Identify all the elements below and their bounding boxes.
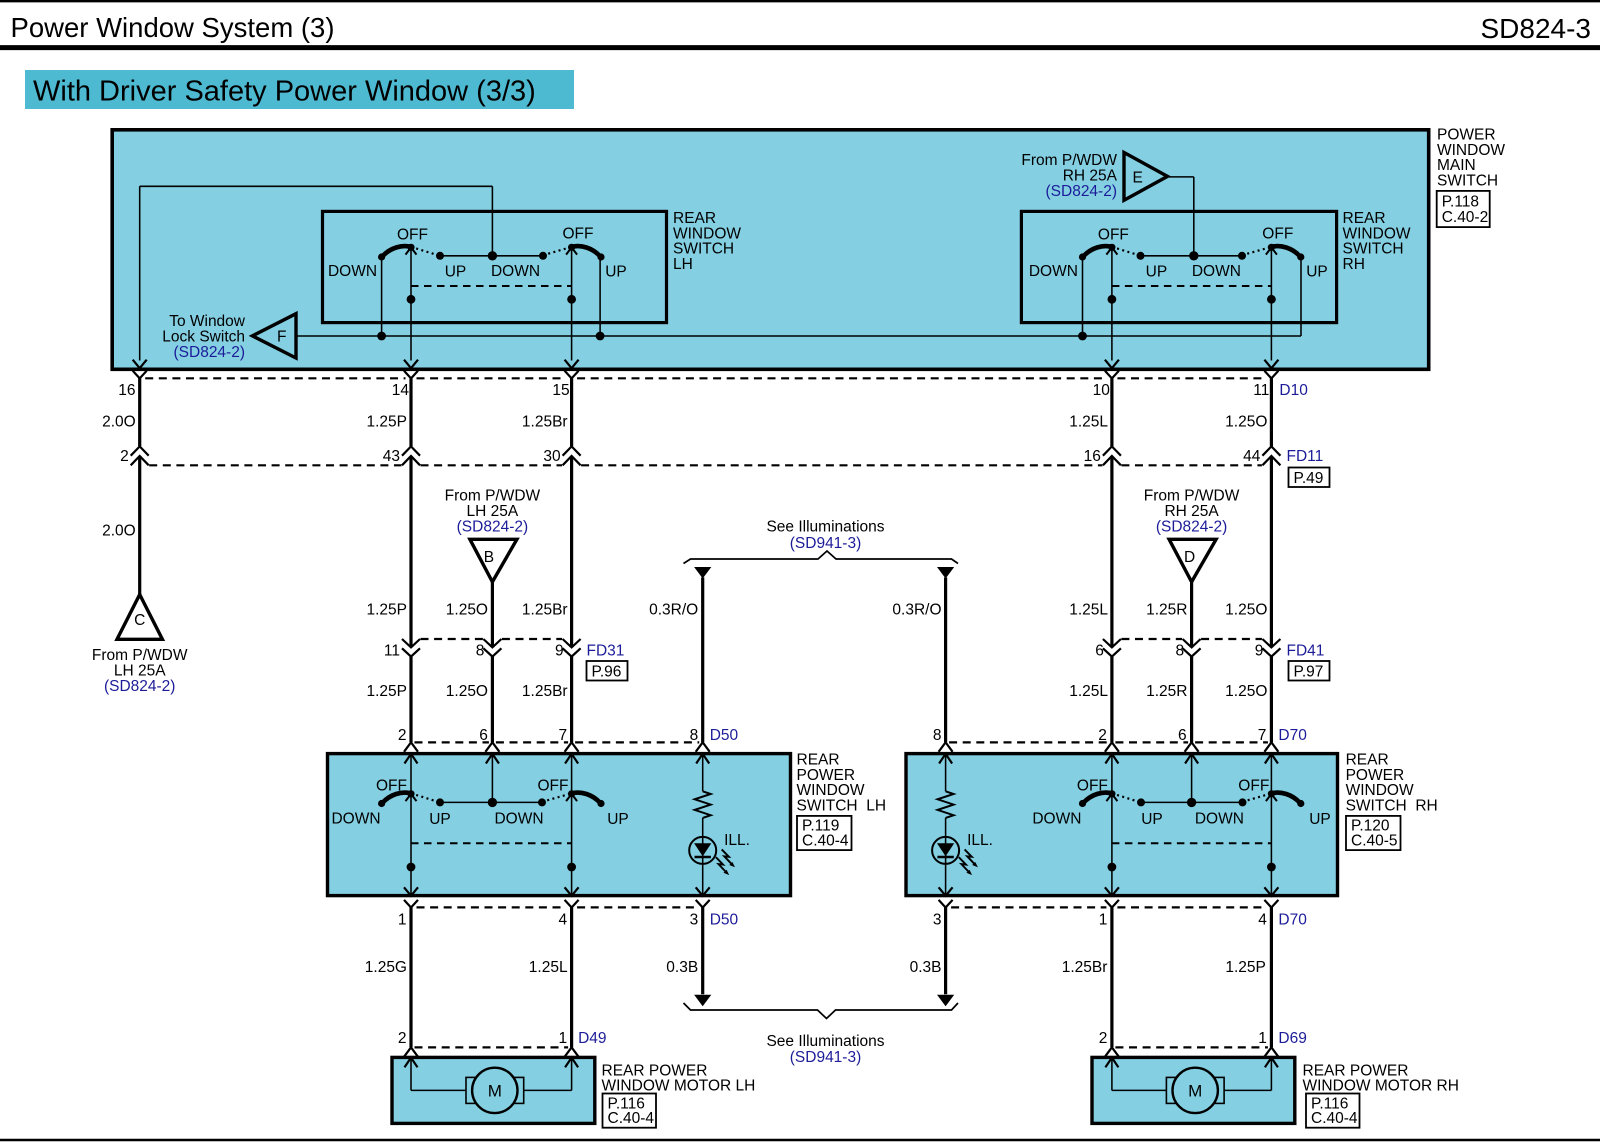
svg-text:2.0O: 2.0O <box>102 522 136 539</box>
wire 1.25L <box>1110 657 1113 743</box>
page ref box P.119 C.40-4 <box>797 816 852 850</box>
pivot arrow pin15 <box>566 247 577 254</box>
svg-text:1.25P: 1.25P <box>1225 959 1266 976</box>
pivot arrow pin14 <box>406 247 417 254</box>
box exit connector <box>133 360 147 369</box>
page ref box P.116 C.40-4 <box>603 1094 657 1128</box>
mechanical linkage dashed LH <box>411 285 572 287</box>
dotted lever to UP contact <box>1112 247 1139 255</box>
svg-text:UP: UP <box>429 811 451 828</box>
svg-text:P.49: P.49 <box>1294 470 1324 487</box>
svg-text:1.25Br: 1.25Br <box>522 601 568 618</box>
svg-text:1.25Br: 1.25Br <box>522 683 568 700</box>
svg-text:2.0O: 2.0O <box>102 413 136 430</box>
svg-text:7: 7 <box>1258 727 1267 744</box>
switch lever RH-left lower (OFF arc) <box>1083 793 1112 803</box>
box exit connector <box>565 887 579 896</box>
pivot arrow pin4 <box>1266 794 1277 801</box>
svg-text:SD824-3: SD824-3 <box>1480 13 1591 44</box>
illumination lamp LED <box>932 837 959 864</box>
svg-text:DOWN: DOWN <box>1029 263 1078 280</box>
svg-text:UP: UP <box>1309 811 1331 828</box>
box exit connector <box>1264 887 1278 896</box>
motor RH internal wires <box>1112 1058 1272 1090</box>
header rule <box>0 45 1600 50</box>
feed junction dot <box>488 798 497 807</box>
UP contact dot <box>436 252 444 260</box>
svg-text:43: 43 <box>383 448 400 465</box>
label See Illuminations (SD941-3) top <box>766 518 884 551</box>
motor box entry connector <box>404 1047 418 1057</box>
wire from E to RH switch feed <box>1168 177 1194 256</box>
svg-text:FD11: FD11 <box>1287 448 1324 465</box>
window lock switch wire <box>296 335 1301 337</box>
svg-text:(SD824-2): (SD824-2) <box>174 344 246 361</box>
svg-text:C: C <box>134 612 145 629</box>
svg-text:1.25P: 1.25P <box>366 413 407 430</box>
svg-text:C.40-2: C.40-2 <box>1442 209 1489 226</box>
svg-text:C.40-5: C.40-5 <box>1351 832 1398 849</box>
junction dot <box>596 332 605 341</box>
connector triangle C (From P/WDW LH 25A) <box>117 595 162 640</box>
UP contact dot <box>1137 252 1145 260</box>
wire 0.3R/O LH <box>701 578 704 743</box>
contact link line <box>1141 255 1243 257</box>
illumination lamp LED <box>689 837 716 864</box>
svg-text:D50: D50 <box>710 911 739 928</box>
svg-text:4: 4 <box>1258 911 1267 928</box>
wire 1.25Br <box>1110 908 1113 1048</box>
svg-text:With Driver Safety Power Windo: With Driver Safety Power Window (3/3) <box>33 75 536 107</box>
svg-text:1: 1 <box>1099 911 1108 928</box>
page ref box P.116 C.40-4 <box>1306 1094 1360 1128</box>
linkage dot <box>1267 863 1276 872</box>
svg-text:3: 3 <box>690 911 699 928</box>
wire 1.25Br <box>570 657 573 743</box>
svg-text:LH 25A: LH 25A <box>114 662 166 679</box>
svg-text:C.40-4: C.40-4 <box>608 1110 655 1127</box>
svg-text:44: 44 <box>1243 448 1261 465</box>
dotted lever right <box>542 793 572 801</box>
page ref box P.97 <box>1289 661 1330 681</box>
switch lever LH-left lower (OFF arc) <box>382 793 411 803</box>
inline connector chevrons <box>1262 446 1280 455</box>
row D70 dashed line <box>949 741 1268 743</box>
svg-text:UP: UP <box>607 811 629 828</box>
svg-text:D69: D69 <box>1278 1030 1306 1047</box>
svg-text:D50: D50 <box>710 727 739 744</box>
connector triangle B (From P/WDW LH 25A) <box>470 539 517 582</box>
riser RH down-contact to lock line <box>1082 257 1084 336</box>
svg-text:See Illuminations: See Illuminations <box>766 518 884 535</box>
wire 1.25O <box>1270 456 1273 647</box>
switch lever LH-left (OFF arc) <box>382 246 411 256</box>
inline connector chevrons <box>1262 639 1280 647</box>
svg-text:1: 1 <box>1258 1030 1267 1047</box>
inline connector chevrons <box>131 446 149 455</box>
svg-text:1.25R: 1.25R <box>1146 683 1187 700</box>
svg-text:0.3B: 0.3B <box>910 959 942 976</box>
page ref box P.49 <box>1289 468 1330 488</box>
linkage dot <box>1267 295 1276 304</box>
page ref box P.120 C.40-5 <box>1346 816 1401 850</box>
label REAR POWER WINDOW SWITCH LH <box>797 751 887 814</box>
illumination resistor <box>695 791 711 818</box>
svg-text:UP: UP <box>445 263 467 280</box>
wire 1.25L <box>1110 378 1113 446</box>
svg-text:1.25L: 1.25L <box>529 959 568 976</box>
svg-text:See Illuminations: See Illuminations <box>766 1033 884 1050</box>
pivot arrow pin1 <box>406 794 417 801</box>
wire 1.25P <box>409 378 412 446</box>
rear window switch RH box <box>1021 211 1336 322</box>
svg-text:8: 8 <box>933 727 942 744</box>
svg-text:LH: LH <box>673 256 693 273</box>
wire 1.25Br <box>570 456 573 647</box>
svg-text:DOWN: DOWN <box>1195 811 1244 828</box>
motor RH symbol M <box>1173 1068 1218 1113</box>
label From P/WDW LH 25A (SD824-2) <box>445 487 541 535</box>
svg-text:1.25O: 1.25O <box>446 601 488 618</box>
svg-text:0.3R/O: 0.3R/O <box>892 601 941 618</box>
wire 2.0O to C <box>138 456 141 595</box>
svg-text:OFF: OFF <box>376 777 407 794</box>
svg-text:M: M <box>1188 1082 1202 1101</box>
wire 1.25O <box>491 657 494 743</box>
svg-text:From P/WDW: From P/WDW <box>445 487 541 504</box>
svg-text:1.25O: 1.25O <box>1225 601 1267 618</box>
page top border line <box>0 0 1600 2</box>
pivot arrow pin11 <box>1266 247 1277 254</box>
svg-text:To Window: To Window <box>169 313 246 330</box>
svg-text:6: 6 <box>479 727 488 744</box>
box entry connector <box>1185 742 1199 752</box>
label From P/WDW LH 25A (SD824-2) <box>92 647 188 695</box>
svg-text:1.25L: 1.25L <box>1069 683 1108 700</box>
pivot wire pin 14 <box>410 247 412 360</box>
power window main switch box <box>112 130 1429 369</box>
inline connector chevrons <box>1103 446 1121 455</box>
svg-text:8: 8 <box>1175 642 1184 659</box>
wire 0.3R/O RH <box>944 578 947 743</box>
svg-text:(SD824-2): (SD824-2) <box>1156 518 1228 535</box>
svg-text:OFF: OFF <box>397 226 428 243</box>
svg-text:SWITCH LH: SWITCH LH <box>797 797 887 814</box>
box exit connector <box>404 887 418 896</box>
pivot arrow pin4 <box>566 794 577 801</box>
dotted lever right <box>1243 793 1272 801</box>
riser LH down-contact to lock line <box>381 257 383 336</box>
svg-text:14: 14 <box>392 382 410 399</box>
illumination feed arrow LH <box>694 567 711 579</box>
svg-text:UP: UP <box>1141 811 1163 828</box>
box entry connector <box>485 742 499 752</box>
inline connector chevrons <box>402 446 420 455</box>
svg-text:1.25Br: 1.25Br <box>1062 959 1108 976</box>
inline connector chevrons <box>483 639 501 647</box>
wire pin7 to lever <box>571 754 573 793</box>
wire resistor through lamp to pin 3 <box>702 818 704 896</box>
box exit connector <box>565 360 579 369</box>
DOWN contact dot <box>1239 798 1247 806</box>
svg-text:DOWN: DOWN <box>1032 811 1081 828</box>
pivot wire pin 10 <box>1111 247 1113 360</box>
riser RH up-contact to lock line <box>1300 257 1302 336</box>
svg-text:M: M <box>488 1082 502 1101</box>
switch lever RH-right lower (OFF arc) <box>1271 793 1300 803</box>
inline connector chevrons <box>1103 639 1121 647</box>
svg-text:1.25G: 1.25G <box>365 959 407 976</box>
pivot wire to pin 4 <box>1270 794 1272 896</box>
svg-text:2: 2 <box>398 1030 407 1047</box>
wire 2.0O <box>138 378 141 446</box>
inline connector chevrons <box>563 639 581 647</box>
connector triangle E (From P/WDW RH 25A) <box>1124 153 1168 201</box>
box entry connector <box>1264 742 1278 752</box>
svg-text:OFF: OFF <box>1238 777 1269 794</box>
svg-text:UP: UP <box>605 263 627 280</box>
svg-text:FD41: FD41 <box>1287 642 1325 659</box>
svg-text:E: E <box>1133 169 1143 186</box>
DOWN contact dot <box>1238 252 1246 260</box>
box exit connector <box>696 887 710 896</box>
inline connector chevrons <box>402 639 420 647</box>
page bottom border line <box>0 1139 1600 1141</box>
box entry connector <box>939 742 953 752</box>
DOWN contact dot <box>538 798 546 806</box>
box exit connector <box>939 887 953 896</box>
pivot wire to pin 1 <box>410 794 412 896</box>
svg-text:UP: UP <box>1306 263 1328 280</box>
svg-text:OFF: OFF <box>538 777 569 794</box>
wire 1.25L <box>1110 456 1113 647</box>
illumination branch wire <box>702 754 704 791</box>
wire pin2 to lever <box>410 754 412 793</box>
connector row D50 bottom dashed line <box>417 906 698 908</box>
dotted lever RH side <box>1242 247 1271 255</box>
label See Illuminations (SD941-3) bottom <box>766 1033 884 1066</box>
connector row D50 dashed line <box>415 741 700 743</box>
label From P/WDW RH 25A (SD824-2) <box>1021 152 1117 200</box>
switch lever LH-right lower (OFF arc) <box>572 793 601 803</box>
svg-text:OFF: OFF <box>1077 777 1108 794</box>
label REAR WINDOW SWITCH LH <box>673 210 741 273</box>
svg-text:D49: D49 <box>578 1030 606 1047</box>
pivot wire to pin 4 <box>571 794 573 896</box>
svg-text:2: 2 <box>1099 1030 1108 1047</box>
connector row FD41 dashed line <box>1121 638 1262 640</box>
svg-text:RH 25A: RH 25A <box>1164 503 1219 520</box>
svg-text:LH 25A: LH 25A <box>467 503 519 520</box>
svg-text:(SD824-2): (SD824-2) <box>1046 183 1118 200</box>
row D69 dashed line <box>1115 1046 1268 1048</box>
svg-text:B: B <box>484 549 494 566</box>
svg-text:D70: D70 <box>1278 727 1307 744</box>
brace top <box>684 551 959 564</box>
svg-text:1.25O: 1.25O <box>1225 413 1267 430</box>
brace bottom <box>684 1003 959 1019</box>
linkage dot <box>407 295 416 304</box>
box exit connector <box>1105 887 1119 896</box>
wire 1.25O <box>1270 657 1273 743</box>
junction dot <box>377 332 386 341</box>
linkage dot <box>407 863 416 872</box>
box exit connector <box>1264 360 1278 369</box>
rear power window switch RH box <box>906 754 1338 896</box>
svg-text:15: 15 <box>552 382 569 399</box>
motor RH brush left <box>1166 1077 1175 1103</box>
svg-text:D70: D70 <box>1278 911 1307 928</box>
rear power window motor LH box <box>392 1057 595 1123</box>
svg-text:OFF: OFF <box>1262 225 1293 242</box>
svg-text:1.25P: 1.25P <box>366 601 407 618</box>
pivot wire pin 11 <box>1270 247 1272 360</box>
motor box entry connector <box>1105 1047 1119 1057</box>
svg-text:WINDOW MOTOR LH: WINDOW MOTOR LH <box>602 1078 756 1095</box>
junction dot <box>1078 332 1087 341</box>
svg-text:Lock Switch: Lock Switch <box>162 328 245 345</box>
svg-text:1.25R: 1.25R <box>1146 601 1187 618</box>
motor box entry connector <box>1264 1047 1278 1057</box>
motor LH brush left <box>466 1077 475 1103</box>
page ref box P.118 C.40-2 <box>1437 191 1490 227</box>
rear window switch LH box <box>323 211 667 322</box>
svg-text:C.40-4: C.40-4 <box>802 832 849 849</box>
label REAR WINDOW SWITCH RH <box>1343 210 1411 273</box>
svg-text:ILL.: ILL. <box>967 832 993 849</box>
illumination resistor <box>938 791 954 818</box>
switch lever LH-right (OFF arc) <box>572 246 601 256</box>
svg-text:P.97: P.97 <box>1294 663 1324 680</box>
label REAR POWER WINDOW MOTOR RH <box>1303 1062 1459 1094</box>
switch lever RH-left (OFF arc) <box>1083 246 1112 256</box>
feed junction dot <box>1189 251 1198 260</box>
linkage dot <box>567 863 576 872</box>
svg-text:6: 6 <box>1095 642 1104 659</box>
wire pin6 to junction <box>1191 754 1193 802</box>
contact link line <box>440 255 543 257</box>
feed junction dot <box>1187 798 1196 807</box>
svg-text:(SD824-2): (SD824-2) <box>457 518 529 535</box>
svg-text:11: 11 <box>384 642 400 659</box>
LH feed wire from pin 16 to switch common <box>140 186 493 360</box>
svg-text:SWITCH: SWITCH <box>1437 172 1498 189</box>
svg-text:1.25L: 1.25L <box>1069 601 1108 618</box>
connector row D49 dashed line <box>415 1046 569 1048</box>
wire 1.25P <box>409 657 412 743</box>
motor RH brush right <box>1215 1077 1224 1103</box>
subtitle highlight bar: With Driver Safety Power Window (3/3) <box>25 70 574 109</box>
label REAR POWER WINDOW MOTOR LH <box>602 1062 756 1094</box>
svg-text:9: 9 <box>1255 642 1264 659</box>
connector row D10 dashed line <box>145 377 1266 379</box>
wire 1.25Br <box>570 378 573 446</box>
svg-text:(SD941-3): (SD941-3) <box>790 1049 862 1066</box>
linkage dot <box>1108 863 1117 872</box>
svg-text:7: 7 <box>558 727 567 744</box>
box exit connector <box>1105 360 1119 369</box>
label To Window Lock Switch (SD824-2) <box>162 313 246 361</box>
wire 1.25O <box>1270 378 1273 446</box>
box entry connector <box>696 742 710 752</box>
switch lever RH-right (OFF arc) <box>1271 246 1300 256</box>
svg-text:1.25L: 1.25L <box>1069 413 1108 430</box>
svg-text:1.25P: 1.25P <box>366 683 407 700</box>
box entry connector <box>1105 742 1119 752</box>
mechanical linkage dashed <box>411 842 572 844</box>
label POWER WINDOW MAIN SWITCH <box>1437 126 1505 189</box>
svg-text:2: 2 <box>120 448 129 465</box>
wire 1.25R <box>1190 657 1193 743</box>
wire 1.25G <box>409 908 412 1048</box>
svg-text:P.96: P.96 <box>592 663 622 680</box>
illumination branch wire <box>945 754 947 791</box>
svg-text:RH: RH <box>1343 256 1365 273</box>
pivot arrow pin1 <box>1106 794 1117 801</box>
svg-text:From P/WDW: From P/WDW <box>92 647 188 664</box>
svg-text:16: 16 <box>1084 448 1101 465</box>
svg-text:16: 16 <box>118 382 135 399</box>
mechanical linkage dashed <box>1112 842 1272 844</box>
box entry connector <box>565 742 579 752</box>
svg-text:0.3R/O: 0.3R/O <box>649 601 698 618</box>
riser LH up-contact to lock line <box>599 257 601 336</box>
UP contact dot <box>1137 798 1145 806</box>
svg-text:1.25O: 1.25O <box>1225 683 1267 700</box>
svg-text:RH 25A: RH 25A <box>1063 167 1118 184</box>
motor LH internal wires <box>411 1058 572 1090</box>
motor box entry connector <box>565 1047 579 1057</box>
svg-text:UP: UP <box>1146 263 1168 280</box>
svg-text:(SD824-2): (SD824-2) <box>104 678 176 695</box>
label From P/WDW RH 25A (SD824-2) <box>1144 487 1240 535</box>
pivot wire to pin 1 <box>1111 794 1113 896</box>
svg-text:8: 8 <box>690 727 699 744</box>
dotted lever to UP contact <box>411 247 438 255</box>
inline connector chevrons <box>563 446 581 455</box>
wire 1.25P <box>1270 908 1273 1048</box>
svg-text:DOWN: DOWN <box>491 263 540 280</box>
feed junction dot <box>488 251 497 260</box>
svg-text:SWITCH RH: SWITCH RH <box>1346 797 1438 814</box>
rear power window motor RH box <box>1092 1057 1295 1123</box>
wire pin2 to lever <box>1111 754 1113 793</box>
connector row FD31 dashed line <box>421 638 563 640</box>
motor LH symbol M <box>472 1068 517 1113</box>
wire 1.25L <box>570 908 573 1048</box>
svg-text:P.118: P.118 <box>1442 194 1479 211</box>
svg-text:DOWN: DOWN <box>328 263 377 280</box>
svg-text:1.25Br: 1.25Br <box>522 413 568 430</box>
svg-text:6: 6 <box>1178 727 1187 744</box>
svg-text:1.25O: 1.25O <box>446 683 488 700</box>
inline connector chevrons <box>1183 639 1201 647</box>
linkage dot <box>567 295 576 304</box>
svg-text:FD31: FD31 <box>587 642 625 659</box>
svg-text:From P/WDW: From P/WDW <box>1144 487 1240 504</box>
pivot arrow pin10 <box>1106 247 1117 254</box>
svg-text:4: 4 <box>558 911 567 928</box>
svg-text:ILL.: ILL. <box>724 832 750 849</box>
illumination feed arrow RH <box>937 567 954 579</box>
DOWN contact dot <box>539 252 547 260</box>
svg-text:DOWN: DOWN <box>331 811 380 828</box>
mechanical linkage dashed RH <box>1112 285 1272 287</box>
svg-text:2: 2 <box>1098 727 1107 744</box>
illumination return arrow LH <box>694 995 711 1007</box>
row D70 bottom dashed line <box>951 906 1266 908</box>
svg-text:0.3B: 0.3B <box>666 959 698 976</box>
